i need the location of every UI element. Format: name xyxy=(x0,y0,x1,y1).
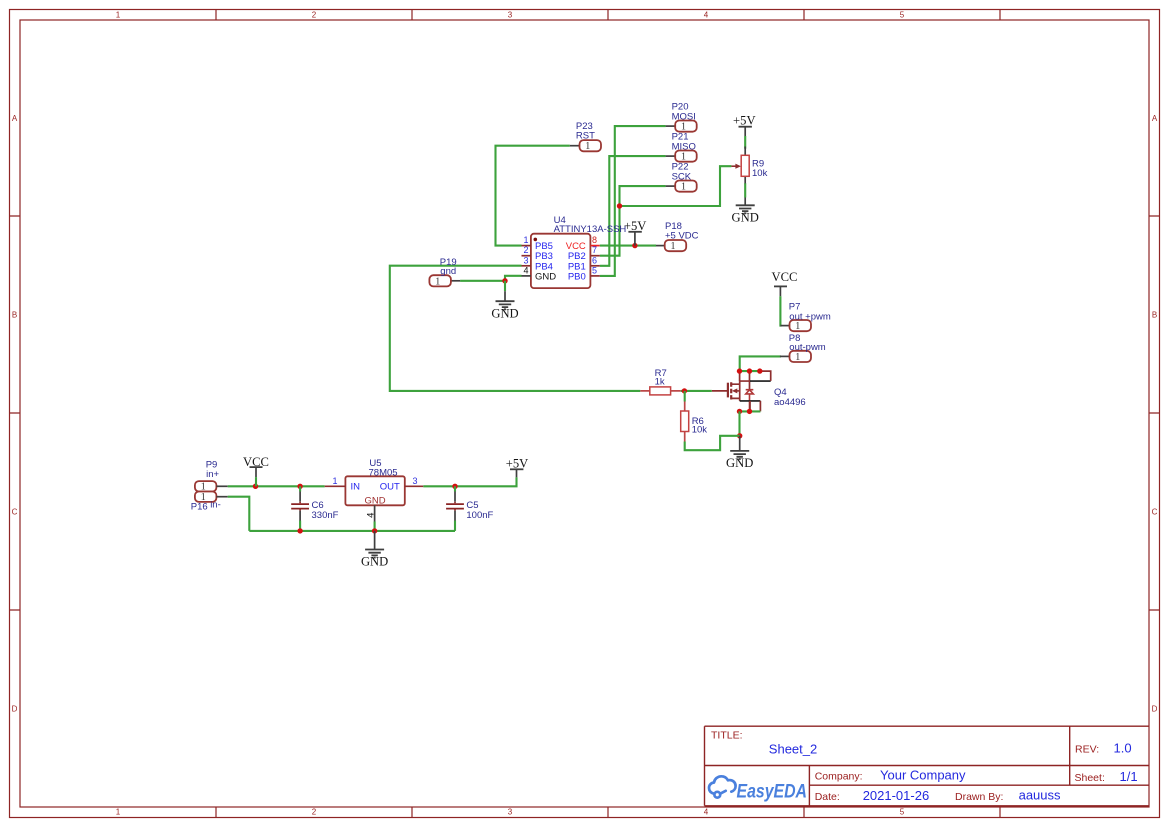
svg-text:B: B xyxy=(1152,311,1157,320)
svg-text:MOSI: MOSI xyxy=(672,111,696,122)
svg-text:+5V: +5V xyxy=(624,219,647,233)
svg-text:1: 1 xyxy=(585,141,590,152)
svg-text:A: A xyxy=(12,114,18,123)
junction C5 top xyxy=(452,484,457,489)
wire P19 to U4 pin4 xyxy=(460,276,521,281)
svg-text:4: 4 xyxy=(704,11,709,20)
U4 pin 4 GND xyxy=(522,275,531,277)
wire R6 to junction xyxy=(684,391,686,402)
wire P21-MISO to U4 pin6 xyxy=(600,156,666,266)
wire P22-SCK to U4 pin7 xyxy=(600,186,666,256)
svg-text:OUT: OUT xyxy=(380,482,400,493)
svg-text:Sheet:: Sheet: xyxy=(1075,772,1105,784)
junction C6 top xyxy=(297,484,302,489)
wire VCC to P7 xyxy=(780,296,781,325)
svg-text:6: 6 xyxy=(592,255,597,265)
svg-text:5: 5 xyxy=(592,265,597,275)
svg-text:7: 7 xyxy=(592,245,597,255)
junction Q4 drain dots xyxy=(737,368,742,373)
svg-text:5: 5 xyxy=(900,808,905,817)
svg-text:GND: GND xyxy=(365,496,386,507)
svg-text:+5V: +5V xyxy=(506,456,529,470)
svg-text:GND: GND xyxy=(491,306,518,320)
svg-text:1: 1 xyxy=(332,476,337,486)
svg-text:1: 1 xyxy=(523,235,528,245)
svg-text:4: 4 xyxy=(523,265,528,275)
connector P7 pin stub xyxy=(780,325,789,327)
wire U5 GND to rail xyxy=(374,522,376,531)
wire VCC stub xyxy=(255,477,257,486)
connector P21 pin stub xyxy=(666,155,676,157)
svg-text:D: D xyxy=(12,705,18,714)
connector P9 pin stub xyxy=(216,485,227,487)
junction Q4 source dots xyxy=(737,409,742,414)
svg-text:2: 2 xyxy=(312,11,317,20)
connector P23 pin stub xyxy=(570,145,580,147)
junction VCC xyxy=(253,484,258,489)
svg-text:3: 3 xyxy=(523,255,528,265)
svg-text:IN: IN xyxy=(351,482,361,493)
svg-text:ao4496: ao4496 xyxy=(774,397,806,408)
svg-text:330nF: 330nF xyxy=(312,510,339,521)
wire P9 to U5 IN xyxy=(228,485,325,487)
svg-text:1: 1 xyxy=(681,182,686,193)
svg-text:1: 1 xyxy=(795,321,800,332)
svg-text:in-: in- xyxy=(210,500,221,511)
wire R9 to GND xyxy=(744,183,746,197)
connector P19 xyxy=(429,275,451,286)
U4 pin 2 PB3 xyxy=(522,255,531,257)
svg-text:1/1: 1/1 xyxy=(1120,769,1138,784)
connector P16 xyxy=(195,492,217,502)
junction C6 bottom xyxy=(297,528,302,533)
junction +5V on pin8 wire xyxy=(632,243,637,248)
U5 pin 1 stub xyxy=(325,485,346,487)
svg-text:1.0: 1.0 xyxy=(1114,741,1132,756)
svg-text:out-pwm: out-pwm xyxy=(789,342,826,353)
svg-text:PB0: PB0 xyxy=(568,271,586,282)
chip U4 ATTINY13A-SSH xyxy=(531,234,591,288)
svg-text:REV:: REV: xyxy=(1075,743,1099,755)
connector P22 xyxy=(675,181,697,192)
svg-text:GND: GND xyxy=(726,456,753,470)
connector P20 xyxy=(675,121,697,132)
resistor R9 10k xyxy=(744,147,746,185)
svg-text:Sheet_2: Sheet_2 xyxy=(769,742,817,757)
connector P23 xyxy=(580,140,602,151)
Q4 body diode xyxy=(746,390,754,412)
U4 pin 1 PB5 xyxy=(522,245,531,247)
svg-text:aauuss: aauuss xyxy=(1019,788,1061,803)
connector P8 xyxy=(790,351,812,362)
svg-text:SCK: SCK xyxy=(672,171,692,182)
wire +5V to R9 xyxy=(744,136,746,149)
wire P8 to Q4 drain xyxy=(740,356,781,371)
svg-text:4: 4 xyxy=(704,808,709,817)
svg-text:Date:: Date: xyxy=(815,791,840,803)
junction Q4 source/GND xyxy=(737,433,742,438)
capacitor C6 330nF xyxy=(299,492,301,502)
wire junction to GND xyxy=(504,281,506,291)
U4 pin 6 PB1 xyxy=(590,265,599,267)
Q4 channel segments xyxy=(730,382,732,399)
U5 pin 4 GND stub xyxy=(374,505,376,521)
junction R7/R6 xyxy=(682,388,687,393)
svg-text:ATTINY13A-SSH: ATTINY13A-SSH xyxy=(554,224,627,235)
wire ground rail xyxy=(249,530,455,532)
svg-text:D: D xyxy=(1152,705,1158,714)
svg-text:1: 1 xyxy=(671,241,676,252)
connector P16 pin stub xyxy=(216,496,227,498)
svg-text:1: 1 xyxy=(116,11,121,20)
svg-text:Your Company: Your Company xyxy=(880,768,966,783)
wire R7 to Q4 gate xyxy=(681,390,712,392)
connector P8 pin stub xyxy=(780,355,790,357)
connector P18 pin stub xyxy=(656,245,665,247)
svg-text:MISO: MISO xyxy=(672,141,696,152)
connector P19 pin stub xyxy=(451,280,460,282)
svg-text:+5 VDC: +5 VDC xyxy=(665,231,699,242)
svg-text:3: 3 xyxy=(508,808,513,817)
svg-text:gnd: gnd xyxy=(440,266,456,277)
Q4 drain/source arms xyxy=(732,381,740,401)
svg-text:VCC: VCC xyxy=(772,270,798,284)
svg-text:10k: 10k xyxy=(692,425,708,436)
junction SCK/R9 xyxy=(617,203,622,208)
svg-text:1: 1 xyxy=(795,352,800,363)
U4 pin 3 PB4 xyxy=(522,265,531,267)
ground GND at U4 pin4 xyxy=(504,291,506,301)
resistor R6 10k xyxy=(684,402,686,442)
svg-text:1k: 1k xyxy=(655,377,665,388)
connector P21 xyxy=(675,151,697,162)
svg-text:8: 8 xyxy=(592,235,597,245)
svg-text:2: 2 xyxy=(312,808,317,817)
connector P18 xyxy=(665,240,687,251)
U5 pin 3 stub xyxy=(405,485,424,487)
svg-text:Drawn By:: Drawn By: xyxy=(955,791,1003,803)
transistor Q4 ao4496 xyxy=(712,368,806,414)
Q4 source stubs xyxy=(740,400,761,402)
svg-text:in+: in+ xyxy=(206,469,219,480)
Q4 body arrow xyxy=(737,390,740,392)
svg-text:1: 1 xyxy=(435,276,440,287)
svg-text:5: 5 xyxy=(900,11,905,20)
svg-text:GND: GND xyxy=(732,211,759,225)
U4 pin 8 VCC xyxy=(590,245,599,247)
wire C5 bottom to rail xyxy=(454,521,456,531)
svg-text:4: 4 xyxy=(365,513,376,518)
connector P22 pin stub xyxy=(666,185,676,187)
ground GND at U5 xyxy=(374,531,376,550)
wire SCK junction to R9 wiper xyxy=(620,166,732,206)
svg-text:B: B xyxy=(12,311,17,320)
capacitor C5 100nF xyxy=(454,492,456,502)
ground GND at Q4 xyxy=(739,436,741,451)
wire P20-MOSI to U4 pin5 xyxy=(600,126,666,276)
svg-text:2: 2 xyxy=(523,245,528,255)
svg-text:EasyEDA: EasyEDA xyxy=(737,782,808,803)
wire P16 to rail xyxy=(228,497,250,531)
Q4 bottom-right tab xyxy=(750,401,760,412)
svg-text:out +pwm: out +pwm xyxy=(789,311,831,322)
R9 wiper arrow xyxy=(731,165,736,167)
wire U4 pin3 to R7 xyxy=(390,266,641,391)
connector P7 xyxy=(790,320,812,331)
chip U5 78M05 xyxy=(345,476,404,505)
wire U5 OUT to +5V xyxy=(423,477,516,486)
Q4 top-right tab xyxy=(760,371,771,381)
svg-text:Company:: Company: xyxy=(815,770,863,782)
connector P9 xyxy=(195,481,217,491)
Q4 source bus xyxy=(740,410,761,412)
svg-text:3: 3 xyxy=(412,476,417,486)
svg-text:C: C xyxy=(1152,508,1158,517)
svg-text:TITLE:: TITLE: xyxy=(711,730,743,742)
wire C5 top xyxy=(454,486,456,491)
Q4 drain bus xyxy=(740,370,760,372)
U4 pin 7 PB2 xyxy=(590,255,599,257)
svg-text:78M05: 78M05 xyxy=(369,468,398,479)
svg-text:1: 1 xyxy=(116,808,121,817)
wire C6 bottom to rail xyxy=(299,521,301,531)
Q4 gate bar xyxy=(727,383,729,398)
svg-text:P16: P16 xyxy=(191,502,208,513)
svg-text:100nF: 100nF xyxy=(466,510,493,521)
svg-text:+5V: +5V xyxy=(733,114,756,128)
U4 pin 5 PB0 xyxy=(590,275,599,277)
Q4 drain stubs xyxy=(740,371,751,390)
svg-text:A: A xyxy=(1152,114,1158,123)
resistor R7 1k xyxy=(640,390,681,392)
svg-text:3: 3 xyxy=(508,11,513,20)
svg-text:GND: GND xyxy=(361,555,388,569)
Q4 gate lead xyxy=(712,390,728,392)
junction U5 GND rail xyxy=(372,528,377,533)
svg-text:10k: 10k xyxy=(752,168,768,179)
junction P19/GND xyxy=(502,278,507,283)
wire junction to R6 xyxy=(685,436,740,450)
connector P20 pin stub xyxy=(666,125,676,127)
wire Q4 source to GND junction xyxy=(738,411,740,435)
ground GND at R9 xyxy=(744,198,746,206)
wire U4 pin8 to P18 xyxy=(600,245,656,247)
svg-text:C: C xyxy=(12,508,18,517)
wire P23-RST to U4 pin1 xyxy=(496,146,570,246)
svg-text:GND: GND xyxy=(535,271,556,282)
svg-text:2021-01-26: 2021-01-26 xyxy=(863,788,930,803)
svg-text:RST: RST xyxy=(576,131,595,142)
wire C6 top xyxy=(299,486,301,491)
